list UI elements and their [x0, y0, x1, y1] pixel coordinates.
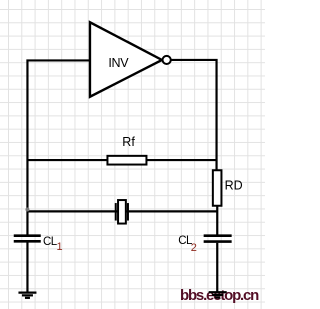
svg-text:Rf: Rf: [122, 135, 135, 149]
svg-text:RD: RD: [225, 179, 243, 193]
svg-text:1: 1: [57, 241, 63, 253]
svg-text:INV: INV: [108, 56, 129, 70]
svg-text:2: 2: [191, 242, 197, 254]
